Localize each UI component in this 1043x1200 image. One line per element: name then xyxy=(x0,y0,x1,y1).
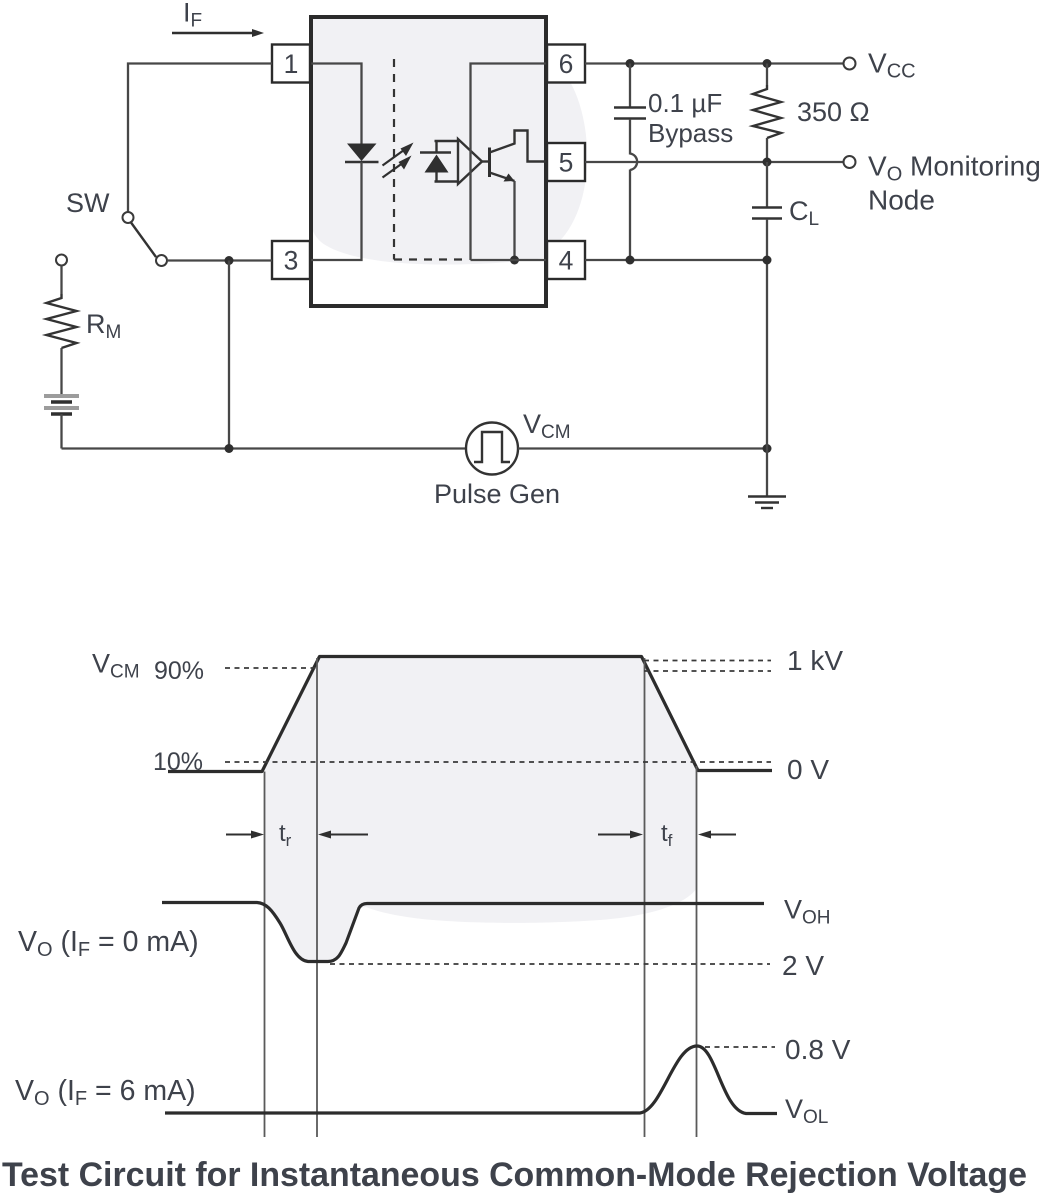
isolation barrier dashed xyxy=(394,59,468,260)
resistor 350 xyxy=(753,64,781,163)
ground xyxy=(748,497,786,509)
terminal Vcc xyxy=(844,58,856,70)
junction ground node xyxy=(763,444,772,453)
photodiode D2 xyxy=(420,141,458,182)
svg-text:5: 5 xyxy=(559,148,574,178)
svg-text:VCM: VCM xyxy=(92,649,140,683)
svg-text:VO (IF = 0 mA): VO (IF = 0 mA) xyxy=(18,926,199,961)
svg-text:VO (IF = 6 mA): VO (IF = 6 mA) xyxy=(15,1075,196,1110)
junction bottom rail xyxy=(225,444,234,453)
wire pin1 internal xyxy=(311,64,362,145)
capacitor bypass 0.1uF xyxy=(614,64,646,261)
arrow tr right xyxy=(318,831,368,839)
pin 1 xyxy=(272,45,310,83)
wire internal pin4 xyxy=(471,259,547,261)
wire terminal to RM xyxy=(60,266,62,295)
svg-text:3: 3 xyxy=(284,246,299,276)
waveform VO IF=6 trace xyxy=(165,1046,777,1114)
svg-text:VCM: VCM xyxy=(523,409,571,443)
battery V1 xyxy=(44,396,79,414)
light arrows xyxy=(383,143,414,178)
svg-text:VOH: VOH xyxy=(784,895,831,929)
svg-text:IF: IF xyxy=(183,0,202,32)
terminal input xyxy=(56,255,67,266)
wire pin5 to Vo xyxy=(585,161,844,163)
dashed 1kV right xyxy=(644,660,771,662)
background shade circuit xyxy=(311,19,587,265)
dashed 90 percent left xyxy=(225,667,317,669)
junction resistor top xyxy=(763,59,772,68)
pin 6 xyxy=(547,45,585,83)
svg-text:RM: RM xyxy=(86,309,121,343)
arrow tr left xyxy=(226,831,264,839)
svg-text:Bypass: Bypass xyxy=(648,118,733,148)
svg-text:0.1 µF: 0.1 µF xyxy=(648,88,722,118)
wire emitter to pin4 rail xyxy=(513,181,515,260)
svg-text:CL: CL xyxy=(789,196,819,230)
junction bypass top xyxy=(626,59,635,68)
waveform VCM trace xyxy=(168,657,772,772)
svg-text:0 V: 0 V xyxy=(787,754,829,785)
amplifier U1A xyxy=(458,139,482,184)
wire switch to pin3 xyxy=(167,259,272,261)
svg-text:Node: Node xyxy=(868,185,935,216)
svg-text:1: 1 xyxy=(284,49,299,79)
wire bottom rail xyxy=(62,447,467,449)
svg-text:0.8 V: 0.8 V xyxy=(785,1034,851,1065)
wire pin1 to switch xyxy=(128,64,272,213)
pin 5 xyxy=(547,143,585,181)
dashed 0.8V level xyxy=(705,1046,775,1048)
svg-text:90%: 90% xyxy=(154,657,204,685)
arrow tf right xyxy=(698,831,736,839)
junction pin4 bypass xyxy=(626,256,635,265)
pin 4 xyxy=(547,241,585,279)
waveform VO IF=0 trace xyxy=(162,903,764,962)
svg-text:Test Circuit for Instantaneous: Test Circuit for Instantaneous Common-Mo… xyxy=(2,1156,1027,1194)
svg-text:10%: 10% xyxy=(153,748,203,776)
wire node A down xyxy=(228,261,230,449)
measurement vertical line tf end xyxy=(696,766,698,1137)
svg-text:VCC: VCC xyxy=(868,48,916,83)
dashed 0V level xyxy=(225,761,771,763)
optocoupler U1 body xyxy=(311,17,546,306)
measurement vertical line tf start xyxy=(644,658,646,1137)
svg-text:Pulse Gen: Pulse Gen xyxy=(434,479,560,509)
svg-text:1 kV: 1 kV xyxy=(787,645,843,676)
LED D1 xyxy=(345,144,379,163)
arrow IF xyxy=(172,29,264,37)
resistor RM xyxy=(47,294,77,348)
dashed 90 percent right xyxy=(644,670,771,672)
capacitor CL xyxy=(752,162,782,449)
svg-text:4: 4 xyxy=(559,246,574,276)
wire pin6 to Vcc xyxy=(585,62,844,64)
junction node A xyxy=(225,256,234,265)
terminal Vo xyxy=(844,156,856,168)
wire pin4 row xyxy=(585,259,767,261)
switch SW xyxy=(123,212,168,266)
svg-text:SW: SW xyxy=(66,188,110,218)
measurement vertical line tr start xyxy=(264,772,266,1138)
background shade waveform xyxy=(263,657,697,962)
svg-text:6: 6 xyxy=(559,49,574,79)
junction internal emitter xyxy=(510,256,519,265)
svg-text:2 V: 2 V xyxy=(782,950,824,981)
wire ground stub xyxy=(766,449,768,497)
svg-text:350 Ω: 350 Ω xyxy=(797,97,870,127)
svg-text:VOL: VOL xyxy=(785,1094,828,1128)
junction pin4 right xyxy=(763,256,772,265)
junction Vo xyxy=(763,158,772,167)
arrow tf left xyxy=(598,831,643,839)
wire internal vcc xyxy=(471,64,547,261)
svg-text:VO Monitoring: VO Monitoring xyxy=(868,151,1041,186)
pulse generator VCM xyxy=(466,423,518,475)
wire RM to battery xyxy=(60,348,62,394)
transistor Q1 xyxy=(482,131,546,182)
wire LED cathode to pin3 xyxy=(311,162,362,260)
dashed 2V level xyxy=(330,963,770,965)
pin 3 xyxy=(272,241,310,279)
measurement vertical line tr end xyxy=(316,658,318,1137)
wire battery to bottom rail xyxy=(60,414,62,449)
wire pulse gen to ground node xyxy=(518,447,767,449)
